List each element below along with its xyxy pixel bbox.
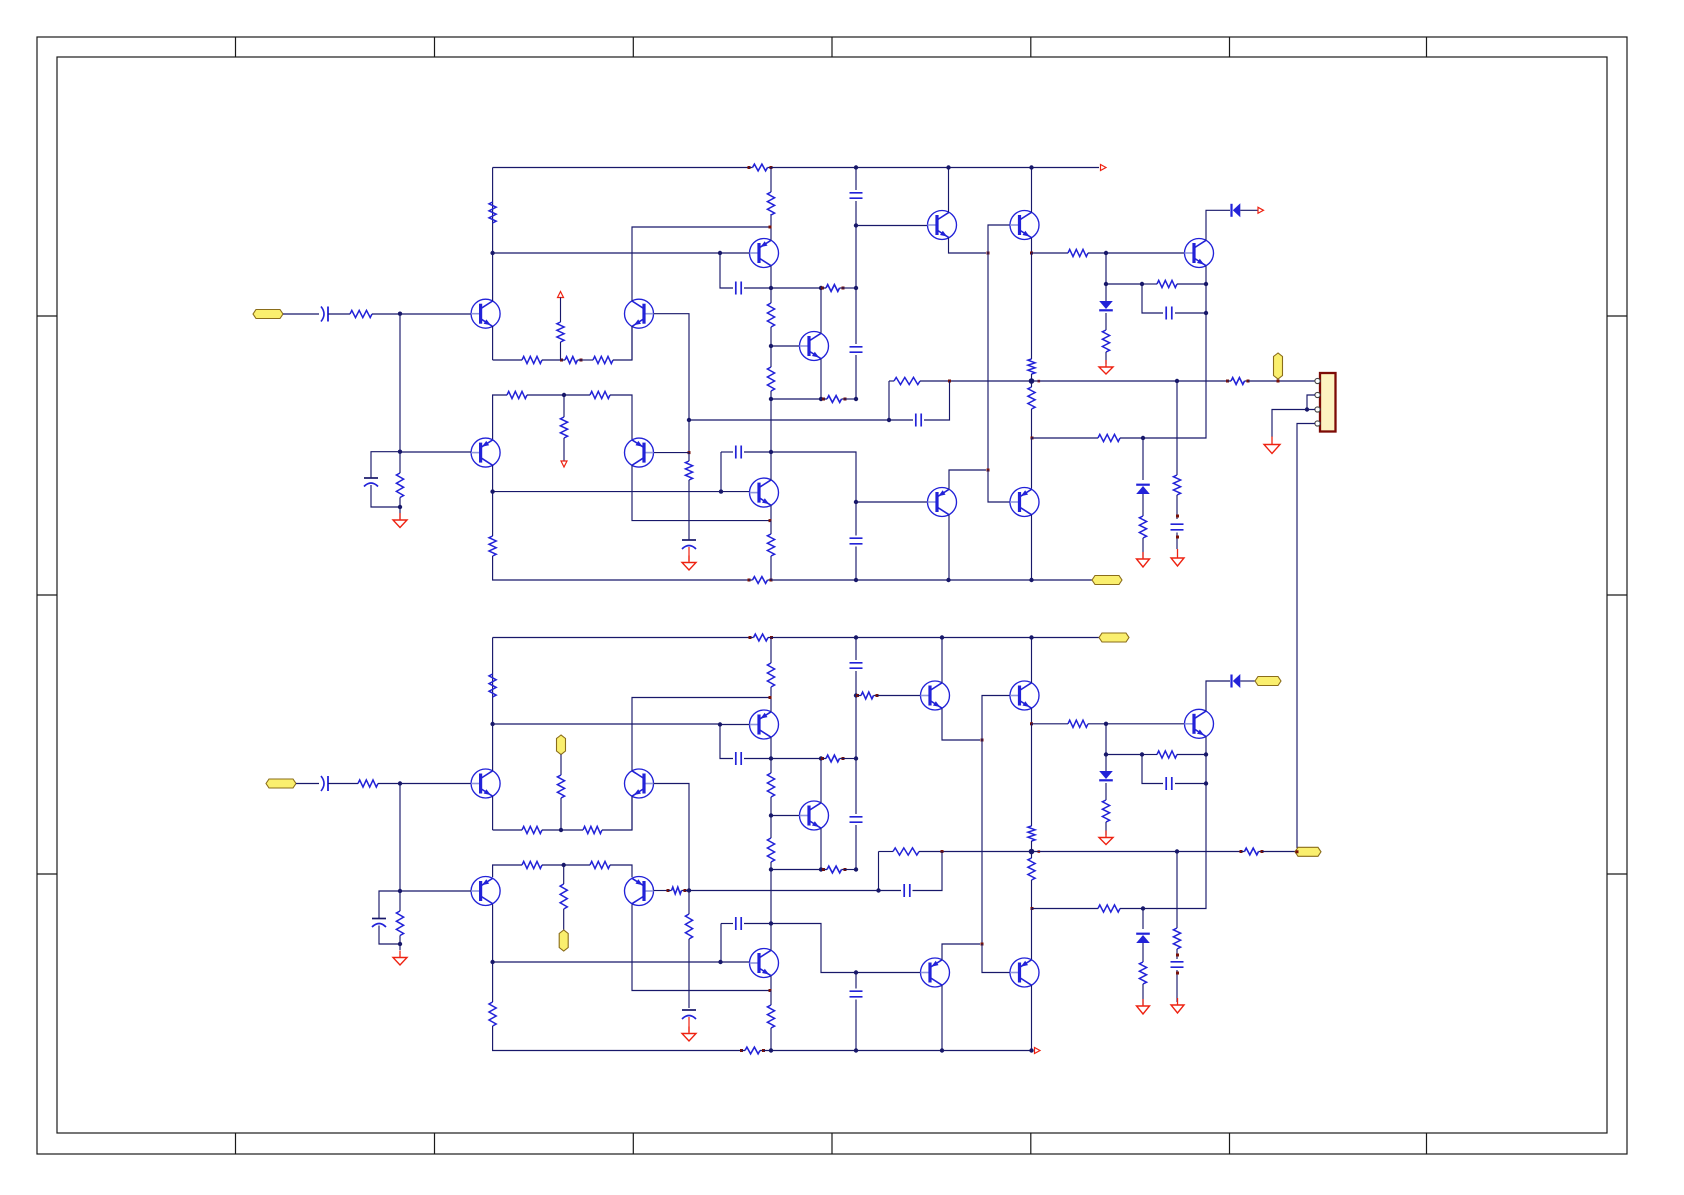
wire R50 to gnd [1105, 822, 1107, 835]
resistor R17 (small) [822, 398, 825, 401]
resistor R34 [557, 775, 564, 798]
ground GND2 [688, 556, 690, 563]
junction row395 tail [562, 393, 566, 397]
wire pin2 [1307, 395, 1315, 410]
wire pin3 to ground [1272, 410, 1315, 438]
junction R2C2 bottom [398, 505, 402, 509]
wire Q17 emitter up [770, 687, 772, 712]
wire Q15 collector down [492, 904, 494, 962]
wire fbB R to node [919, 851, 942, 853]
wire millerB right leg [744, 758, 771, 760]
wire fbB row851 [879, 851, 894, 853]
wire Q7 emitter down [770, 505, 772, 520]
capacitor C15 [850, 663, 863, 668]
power pad tail B1 [557, 735, 566, 755]
junction Q3 collector node [490, 489, 494, 493]
junction row923 node [769, 921, 773, 925]
transistor Q17 (VAS PNP) [750, 710, 779, 739]
resistor R9 (Q3 emitter) [507, 391, 527, 398]
wire R53 to gnd [1142, 984, 1144, 1005]
junction row284 left [1104, 282, 1108, 286]
junction input node A [398, 312, 402, 316]
wire row395 mid [527, 394, 590, 396]
wire zener leg B [1142, 909, 1144, 930]
capacitor C16 [850, 817, 863, 822]
junction output red tick [1038, 380, 1041, 383]
wire emitter row 395 [493, 395, 507, 440]
wire Q21 emitter down [1031, 708, 1033, 724]
capacitor C5 (rail bypass) [850, 193, 863, 198]
junction Q10 emitter row313 [1204, 311, 1208, 315]
resistor R36 [590, 861, 610, 868]
capacitor C21 (feedback) [904, 884, 910, 897]
power flag +V tail arrow [558, 292, 564, 298]
junction railB x1031 [1029, 635, 1033, 639]
junction railB x856 [854, 635, 858, 639]
wire emitter row 830 [493, 829, 522, 831]
wire Q3 collector down [492, 465, 494, 491]
junction fb node B [687, 888, 691, 892]
wire R2 stubs [399, 452, 401, 473]
ground GND7 [399, 951, 401, 958]
wire x982 corner to Q24 base [982, 944, 1010, 973]
wire D3 to R26 [1142, 494, 1144, 516]
junction feedback node [687, 418, 691, 422]
wire Q14 base to fb column [654, 784, 690, 891]
wire bias jog left [371, 452, 400, 478]
wire Q20 emitter down-right [942, 708, 980, 740]
wire Q6 emitter down [820, 359, 822, 399]
wire D2 to R23 [1105, 313, 1107, 330]
wire row288 link [771, 287, 821, 289]
junction miller node B [769, 756, 773, 760]
junction input node B [398, 781, 402, 785]
transistor Q24 (driver PNP 2) [1010, 958, 1039, 987]
inductor L4 [740, 1049, 743, 1052]
resistor R48 [1028, 858, 1035, 880]
resistor R22 [1157, 280, 1177, 287]
wire +rail B left [493, 637, 750, 639]
resistor R54 (zobel) [1173, 928, 1180, 949]
resistor R11 (lower tail) [560, 417, 567, 438]
junction Q10 emitter row284 [1204, 282, 1208, 286]
wire x988 up to Q9 base [988, 225, 1010, 253]
junction Q13 collector node [490, 722, 494, 726]
power flag +V output [1258, 207, 1264, 213]
junction fb row420 [887, 418, 891, 422]
wire miller cap right leg [744, 287, 771, 289]
wire driver base row B [856, 695, 858, 697]
inductor L3 [749, 636, 752, 639]
wire -railB right [764, 1050, 1032, 1052]
junction -railB x1031 [1029, 1048, 1033, 1052]
junction row399 square [769, 397, 773, 401]
transistor Q8 (driver NPN) [928, 211, 957, 240]
wire x1031B row908 to QL2B [1031, 909, 1033, 960]
wire tail stem [560, 298, 562, 323]
wire +rail B right [772, 637, 1100, 639]
transistor Q6 (VAS cascode NPN) [800, 332, 829, 361]
wire x856B mid [855, 759, 857, 815]
diode D1 (flag diode) [1230, 204, 1232, 217]
wire row399 to x856 [844, 398, 856, 400]
power pad +V B [1099, 633, 1129, 642]
capacitor C19 [1166, 777, 1172, 790]
wire x856 mid [855, 288, 857, 344]
wire driver base row [856, 225, 928, 227]
wire row923 left leg [721, 923, 733, 925]
resistor R26 [1139, 516, 1146, 538]
wire C20 to gnd [1176, 970, 1178, 1002]
wire Q3 base [400, 451, 471, 453]
wire fb row420 long [689, 419, 913, 421]
wire x982 down [981, 740, 983, 944]
wire x856B low [855, 825, 857, 870]
wire R12 to rail corner [493, 556, 749, 580]
resistor R1 (series input) [350, 310, 372, 317]
wire Q19 emitter down [770, 976, 772, 991]
wire row438 [1032, 437, 1098, 439]
wire R42 low [770, 862, 772, 870]
junction x856 row758 [854, 756, 858, 760]
wire x1031 emitter to output node [1031, 253, 1033, 359]
wire tail B2 stem [563, 865, 565, 884]
wire C19 right [1175, 783, 1206, 785]
junction zobel m1 [1176, 515, 1179, 518]
junction rail at x856 [854, 165, 858, 169]
output pad B [1295, 847, 1321, 856]
wire C3 to ground [688, 547, 690, 561]
wire x1106B diode leg [1105, 755, 1107, 772]
junction padB dot [1296, 850, 1299, 853]
wire x982 up to Q21 base [982, 696, 1010, 741]
wire R41 low [770, 797, 772, 816]
wire x1031 row438 to QL2 [1031, 438, 1033, 489]
wire R12 stubs [492, 492, 494, 536]
resistor R55 (feedback) [893, 848, 919, 855]
junction row452 node [769, 450, 773, 454]
capacitor C13 [372, 918, 386, 920]
power flag -V B [1035, 1048, 1041, 1054]
junction rail at x948 [946, 165, 950, 169]
wire R47 stubs [1031, 841, 1033, 852]
junction row865 tail [562, 863, 566, 867]
wire Q1 emitter down [492, 326, 494, 360]
junction -rail x856 [854, 578, 858, 582]
wire Q13 emitter down [492, 796, 494, 830]
power pad output flag B [1255, 677, 1281, 686]
wire fb R to node [920, 380, 950, 382]
capacitor C4 (miller) [736, 282, 741, 295]
resistor R23 [1102, 330, 1109, 352]
resistor R14 [767, 303, 774, 327]
wire R19 to output base node [1088, 252, 1106, 254]
resistor R20 (bias upper) [1028, 359, 1035, 374]
resistor R32 [522, 826, 542, 833]
wire D4 to pad [1240, 680, 1255, 682]
wire bias to QL1B base [856, 972, 921, 974]
junction Q17 emitter node [769, 696, 772, 699]
wire row284 left link [1106, 283, 1142, 285]
wire Q2 emitter [631, 326, 633, 360]
junction Q6 collector node [819, 286, 823, 290]
wire D5 to R50 [1105, 783, 1107, 800]
junction zobelB m1 [1176, 954, 1179, 957]
wire row923 right leg [744, 923, 771, 925]
capacitor C20 [1171, 962, 1184, 967]
wire lower tail to flag [563, 438, 565, 461]
wire x1106 diode leg [1105, 284, 1107, 301]
resistor R29 [358, 780, 378, 787]
wire Q18 emitter down [820, 828, 822, 869]
resistor R30 [396, 911, 403, 936]
wire miller cap left leg [720, 253, 733, 288]
wire x856 cap to base node [855, 201, 857, 288]
junction row438 node [1031, 437, 1034, 440]
wire R26 to gnd [1142, 538, 1144, 558]
transistor Q22 (output NPN) [1185, 709, 1214, 738]
resistor R46 [1068, 720, 1088, 727]
transistor Q19 (VAS NPN) [750, 949, 779, 978]
power pad -V A [1092, 576, 1122, 585]
junction row754 sq [1140, 752, 1144, 756]
frame row ticks [37, 315, 1627, 317]
capacitor C3 (feedback shunt, polar) [682, 539, 696, 541]
wire Q18 collector up [820, 759, 822, 803]
junction VASB base square [718, 722, 722, 726]
wire Q21 emitter to R46 [1032, 723, 1069, 725]
connector J2 body [1320, 373, 1336, 432]
wire Q3 collector node to VAS2 base [493, 491, 720, 493]
wire row754 stubs [1142, 754, 1157, 756]
junction driver base node B [854, 693, 858, 697]
wire Q23 emitter up-right [942, 944, 980, 960]
capacitor C8 (bias bypass) [850, 538, 863, 544]
transistor Q5 (VAS PNP) [750, 239, 779, 268]
wire row758 to x856 [842, 758, 856, 760]
resistor R4 (Q1 emitter) [522, 356, 542, 363]
wire x1142B down [1142, 755, 1163, 784]
wire row284 stubs [1142, 283, 1157, 285]
transistor Q7 (VAS NPN) [750, 478, 779, 507]
wire R20 stubs [1031, 374, 1033, 381]
wire x1106 down [1105, 253, 1107, 284]
resistor R8 (feedback shunt) [685, 461, 692, 480]
junction -rail x1031 [1029, 578, 1033, 582]
wire row452 to bias column [771, 452, 856, 502]
wire Q15 collector node to VAS2 base [493, 961, 720, 963]
wire Q21 collector to rail [1031, 638, 1033, 683]
wire Q14 emitter [631, 796, 633, 830]
wire row830 right [602, 797, 632, 830]
resistor R51 (small) [1240, 850, 1243, 853]
wire zobel leg [1176, 381, 1178, 475]
junction Q19 emitter node [769, 989, 772, 992]
capacitor C9 [1166, 307, 1172, 320]
wire Q1 collector node to VAS base [493, 252, 720, 254]
wire tail B1 stem [560, 755, 562, 776]
diode D4 [1230, 675, 1232, 688]
wire row923 to bias jog [771, 924, 856, 973]
resistor R28 (feedback) [894, 377, 920, 384]
wire Q5 collector down [770, 266, 772, 288]
wire C10 to gnd [1176, 533, 1178, 550]
junction VAS2 base square [719, 489, 723, 493]
wire VAS base lead [720, 252, 750, 254]
wire Q8 emitter down-right [949, 238, 987, 253]
junction VAS base square [718, 251, 722, 255]
resistor R7 (tail) [557, 322, 564, 342]
wire R23 to gnd [1105, 352, 1107, 364]
junction -railB x942 [940, 1048, 944, 1052]
wire biasB cap stubs [855, 973, 857, 989]
wire row452 left leg [721, 451, 733, 453]
wire Q24 collector to rail [1031, 985, 1033, 1050]
wire Q15 base [400, 890, 471, 892]
resistor R45 [767, 1005, 774, 1028]
wire Q6 base lead [771, 345, 800, 347]
transistor Q14 (input NPN mirrored) [625, 769, 654, 798]
wire R40 to rail [770, 638, 772, 664]
junction Q5 emitter-R node [769, 226, 772, 229]
resistor R10 (Q4 emitter) [590, 391, 610, 398]
resistor R5 (small, tail link) [560, 359, 563, 362]
resistor R35 [522, 861, 542, 868]
wire pin1 from pad [1316, 380, 1317, 382]
wire VASB base lead [720, 724, 750, 726]
junction zobelB m2 [1176, 972, 1179, 975]
junction x856 row399 [854, 397, 858, 401]
resistor R21 (bias lower) [1028, 387, 1035, 409]
wire bias cap stubs [855, 502, 857, 536]
wire R27 to C10 [1176, 495, 1178, 519]
wire R21 stubs [1031, 381, 1033, 387]
resistor R40 [767, 663, 774, 687]
wire Q18 base lead [771, 815, 800, 817]
junction row830 tail [559, 828, 563, 832]
wire C12 to R29 [328, 783, 358, 785]
resistor R27 (zobel) [1173, 475, 1180, 495]
connector pin 4 [1315, 421, 1320, 426]
resistor R13 (VAS emitter) [767, 192, 774, 215]
junction pin23 [1305, 407, 1309, 411]
wire x721B cap to base [720, 924, 722, 963]
wire x1031 to row438 [1031, 409, 1033, 438]
wire output base lead B [1106, 723, 1185, 725]
wire Q11 emitter up-right [949, 470, 986, 489]
wire pin4 down to channel B output [1297, 424, 1315, 849]
transistor Q21 (driver NPN 2) [1010, 681, 1039, 710]
wire output row [950, 380, 1227, 382]
junction Q6 emitter node [819, 397, 823, 401]
wire Q11 collector to rail [948, 515, 950, 580]
resistor R12 (to neg rail) [489, 536, 496, 556]
diode D5 [1099, 771, 1113, 779]
wire row360 mid-left [542, 359, 561, 361]
ground GND11 [688, 1027, 690, 1034]
wire x988 down [987, 253, 989, 470]
wire C11 to corner [924, 381, 950, 420]
wire R14 stubs [770, 288, 772, 303]
wire R45 to rail [770, 1028, 772, 1051]
output pad A [1274, 353, 1283, 379]
wire x988 corner to Q12 base [988, 470, 1010, 502]
ground GND4 [1142, 552, 1144, 559]
ground GND6 (speaker gnd) [1271, 437, 1273, 445]
ground GND10 [1177, 998, 1179, 1005]
wire Q9 emitter down [1031, 238, 1033, 253]
wire R39 to rail corner [493, 1026, 742, 1051]
transistor Q4 (input PNP mirrored) [625, 438, 654, 467]
ground GND5 [1177, 549, 1179, 558]
resistor R39 [489, 1002, 496, 1026]
connector pin 1 [1315, 378, 1320, 383]
power flag -V tail arrow [561, 461, 567, 467]
wire input node down to Q3 base [399, 314, 401, 452]
junction Q4 base node [688, 451, 691, 454]
junction fbB maroon [941, 850, 944, 853]
wire J1 to C1 [283, 313, 319, 315]
resistor R33 [583, 826, 602, 833]
transistor Q15 (input PNP) [471, 877, 500, 906]
wire out to pad [1248, 380, 1316, 382]
wire biasB cap to rail [855, 1000, 857, 1051]
wire row869 link [771, 869, 821, 871]
wire input node down [399, 784, 401, 892]
wire C9 right [1175, 312, 1206, 314]
wire VAS2 base lead [721, 491, 750, 493]
junction Q15 collector node [490, 960, 494, 964]
wire R54 to C20 [1176, 949, 1178, 959]
junction fbB row890 [876, 888, 880, 892]
wire -rail right segment [771, 579, 1092, 581]
junction R30 bottom [398, 942, 402, 946]
connector pin 2 [1315, 392, 1320, 397]
resistor R57 (feedback shunt B) [685, 914, 692, 939]
resistor R16 (small) [821, 287, 824, 290]
resistor R19 (output base feed) [1068, 249, 1088, 256]
wire R41 stubs [770, 759, 772, 774]
wire tail B2 low [563, 909, 565, 930]
wire zener leg [1142, 438, 1144, 480]
wire D6 to R53 [1142, 943, 1144, 962]
resistor R47 [1028, 826, 1035, 841]
resistor R18 (VAS emitter low) [767, 534, 774, 556]
wire bias to QL1 base [856, 501, 928, 503]
wire Q13 collector up [492, 638, 494, 771]
wire Q4 collector down-right [632, 465, 769, 520]
junction Q22 emitter row783 [1204, 781, 1208, 785]
wire x856 rail to cap [855, 168, 857, 191]
wire row754 right [1177, 754, 1206, 756]
wire Q22 emitter down [1143, 737, 1206, 909]
power flag +V right arrow [1101, 165, 1107, 171]
transistor Q2 (input NPN mirrored) [625, 299, 654, 328]
transistor Q20 (driver NPN) [921, 681, 950, 710]
wire R1 to Q1 base with node [372, 313, 471, 315]
transistor Q10 (output NPN) [1185, 239, 1214, 268]
capacitor C10 (zobel) [1171, 524, 1184, 530]
capacitor C2 (input HF shunt) [364, 477, 378, 479]
resistor R49 [1157, 751, 1177, 758]
wire tail to row [560, 342, 562, 360]
wire x856B rail to cap [855, 638, 857, 661]
junction output base node [1104, 251, 1108, 255]
wire R15 stubs [770, 346, 772, 367]
wire row288 to x856 [842, 287, 856, 289]
resistor R31 [489, 674, 496, 697]
wire row399 link [771, 398, 821, 400]
